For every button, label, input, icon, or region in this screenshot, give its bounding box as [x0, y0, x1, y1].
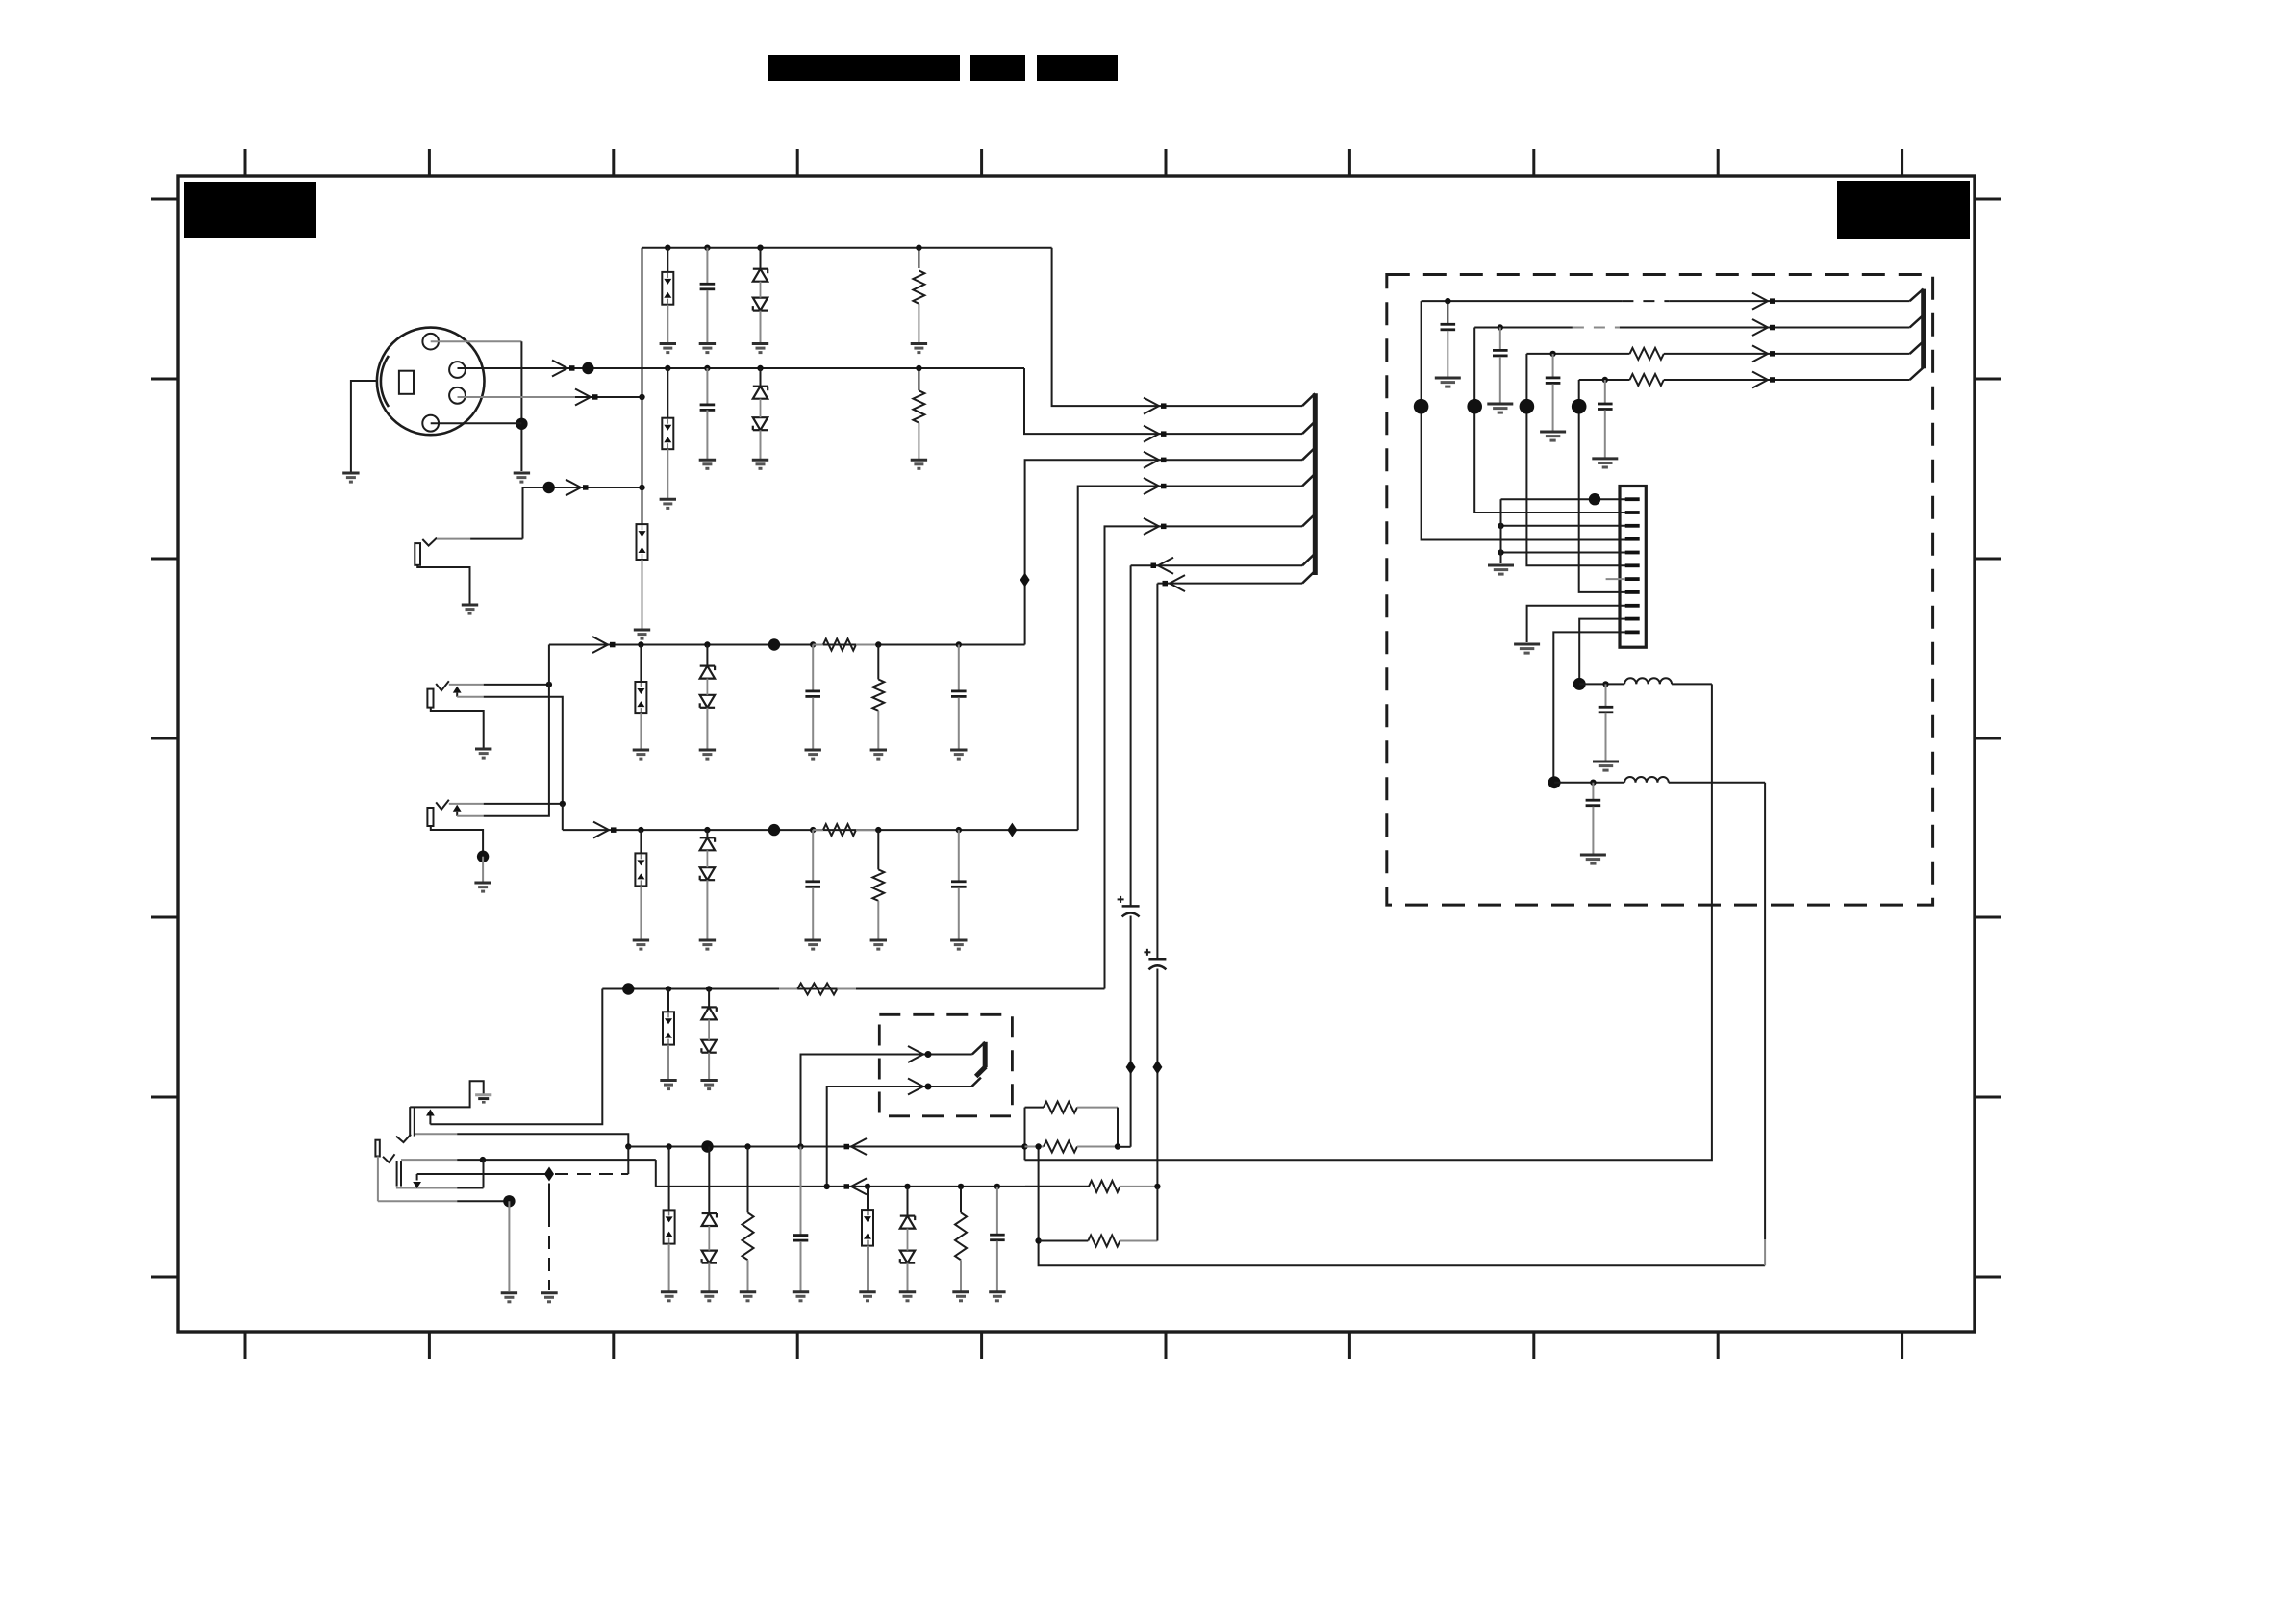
wire MIC2 rail to header line2 — [1024, 368, 1302, 434]
wire — [482, 857, 484, 882]
wire — [708, 1263, 710, 1291]
wire — [1447, 301, 1448, 324]
resistor R9 — [955, 1212, 967, 1260]
junction dot — [706, 986, 712, 991]
arrow rail A — [592, 637, 616, 653]
junction dot — [704, 641, 710, 647]
junction dot — [1590, 780, 1596, 786]
wire — [642, 560, 643, 629]
capacitor C1 — [700, 284, 716, 289]
wire J4 tip — [449, 803, 563, 805]
junction dot rail2 start — [625, 1143, 631, 1149]
ground R9 — [952, 1292, 969, 1301]
redacted corner box top-right — [1837, 181, 1970, 239]
ground D2 — [752, 460, 768, 468]
bottom rail 3 wire — [656, 1186, 1089, 1187]
jack connector J2 tip contact — [415, 538, 522, 565]
arrow header line1 — [1144, 398, 1167, 414]
dashed segment line2 — [1573, 327, 1620, 329]
ground C14 — [1540, 432, 1566, 440]
jack connector J3 body — [427, 681, 448, 707]
transient suppressor Z4 — [635, 682, 646, 713]
wire XLR pin4 — [431, 422, 522, 424]
junction node dot — [701, 1140, 713, 1152]
resistor R2 — [913, 390, 924, 422]
junction dot — [757, 245, 763, 251]
wire — [667, 989, 669, 1012]
wire — [706, 368, 708, 405]
junction dot R12 left — [1035, 1237, 1041, 1243]
redacted title bar 1 — [768, 55, 960, 81]
wire — [1604, 380, 1606, 404]
wire header line6 jog — [1118, 1146, 1131, 1148]
arrow header line2 — [1144, 426, 1167, 442]
wire header line3 — [1025, 460, 1302, 644]
ground D4 — [699, 940, 716, 949]
wire — [668, 1147, 670, 1211]
wire — [708, 1053, 710, 1080]
capacitor C6 — [951, 882, 967, 887]
wire — [706, 290, 708, 342]
resistor R14 — [1630, 348, 1664, 360]
capacitor C14 — [1546, 378, 1561, 384]
wire line1 to pin4 — [1422, 301, 1625, 539]
wire headphone return lower — [1039, 783, 1766, 1266]
junction dot — [638, 641, 643, 647]
junction dot — [1498, 324, 1503, 330]
wire — [918, 423, 919, 459]
wire CN1 pin7 stub — [1606, 578, 1625, 580]
resistor R6 — [872, 869, 884, 901]
junction dot — [666, 1143, 671, 1149]
wire XLR pin1 down — [431, 341, 522, 471]
ground C12 — [1435, 378, 1461, 387]
rail B wire — [563, 829, 1078, 831]
ground D1 — [752, 344, 768, 353]
capacitor C5 — [805, 882, 820, 887]
wire J2 tip up to node — [523, 487, 642, 539]
bus entry module line1 — [1910, 289, 1924, 302]
transient suppressor Z1 — [662, 272, 673, 305]
wire — [667, 449, 668, 498]
ground J6 ring — [501, 1293, 517, 1302]
polarized capacitor C10 — [1118, 896, 1140, 917]
junction dot — [744, 1143, 750, 1149]
jack connector J4 body — [427, 800, 448, 826]
wire J2 sleeve — [417, 565, 469, 604]
bus entry line7 — [1302, 571, 1315, 584]
wire — [960, 1260, 962, 1290]
wire — [1554, 782, 1624, 784]
ground C5 — [805, 940, 821, 949]
wire — [706, 880, 708, 939]
capacitor C4 — [951, 691, 967, 697]
bus entry module line3 — [1910, 341, 1924, 354]
jack J4 switch arrow — [453, 805, 462, 816]
transient suppressor Z6 — [663, 1012, 674, 1044]
ground C4 — [950, 750, 967, 759]
wire — [1499, 328, 1501, 351]
diode pair D3 — [700, 666, 715, 708]
junction dot — [810, 641, 816, 647]
wire line7 down to R12 — [1156, 1187, 1158, 1241]
series resistor R5 — [813, 824, 878, 836]
ground C17 — [1580, 855, 1606, 863]
dashed module box — [1387, 275, 1933, 906]
jack J5 switch arrow — [426, 1110, 435, 1125]
arrow option line2 — [908, 1079, 932, 1095]
ground CN1 pins — [1488, 565, 1514, 574]
wire — [958, 645, 960, 691]
wire line4 to pin8 — [1579, 380, 1625, 592]
resistor R4 — [872, 680, 884, 711]
wire module line3 — [1526, 353, 1909, 355]
wire — [706, 410, 708, 459]
arrow module line1 — [1752, 293, 1775, 310]
wire CN1 pin3 — [1501, 525, 1626, 527]
wire — [1552, 384, 1554, 431]
redacted title bar 2 — [970, 55, 1025, 81]
wire — [747, 1147, 749, 1213]
ground C13 — [1487, 404, 1513, 412]
ground D3 — [699, 750, 716, 759]
module header bus — [1921, 289, 1926, 369]
ground C6 — [950, 940, 967, 949]
capacitor C17 — [1586, 800, 1601, 806]
ground J4 sleeve — [474, 883, 491, 891]
junction dot — [916, 245, 921, 251]
ground Z8 — [859, 1292, 875, 1301]
junction node dot — [768, 638, 780, 650]
wire top rail 1 — [642, 247, 1052, 249]
junction dot — [797, 1143, 803, 1149]
wire — [667, 305, 668, 342]
wire — [958, 887, 960, 939]
wire — [1592, 783, 1594, 801]
junction dot J3 node — [546, 682, 552, 687]
wire — [877, 711, 879, 749]
capacitor C12 — [1441, 324, 1456, 330]
wire J6 switch contact — [413, 1174, 549, 1188]
bus entry line4 — [1302, 474, 1315, 487]
wire CN1 pin9 — [1527, 606, 1625, 642]
junction dot — [875, 827, 881, 833]
diamond junction line7 — [1152, 1060, 1162, 1074]
junction J6 ring node — [503, 1195, 515, 1207]
junction dot J6 tip — [480, 1157, 486, 1162]
resistor R1 — [913, 270, 924, 303]
junction dot — [810, 827, 816, 833]
transient suppressor Z5 — [635, 853, 646, 886]
diode pair D5 — [701, 1007, 716, 1052]
ground Z5 — [633, 940, 649, 949]
resistor R13 — [1025, 1181, 1157, 1192]
wire — [640, 645, 642, 683]
capacitor C2 — [700, 405, 716, 411]
wire — [706, 645, 708, 666]
wire J6 tip corner to rail3 — [655, 1160, 657, 1187]
junction dot — [916, 365, 921, 371]
junction dot — [638, 827, 643, 833]
junction dot — [704, 365, 710, 371]
wire header line6 — [1131, 564, 1302, 566]
capacitor C16 — [1599, 707, 1614, 712]
wire CN1 pin5 — [1501, 552, 1626, 554]
wire — [877, 901, 879, 939]
wire rail2 stub down — [627, 1147, 629, 1175]
wire module line1 — [1422, 300, 1910, 302]
ground Z7 — [661, 1292, 677, 1301]
wire CN1 pin1 — [1501, 498, 1626, 500]
wire CN1 pin11 — [1553, 632, 1625, 782]
ground Z4 — [633, 750, 649, 759]
ground J6 switch — [541, 1293, 557, 1302]
junction node dot — [1467, 399, 1482, 414]
junction dot pin5 — [1498, 549, 1503, 555]
wire — [706, 708, 708, 749]
junction dot — [956, 827, 962, 833]
junction dot — [958, 1184, 964, 1189]
ground R8 — [740, 1292, 756, 1301]
wire option line1 — [801, 1055, 972, 1147]
wire J4 node down to rail B — [562, 804, 564, 830]
ground D5 — [700, 1081, 717, 1089]
bottom rail 2 wire — [628, 1146, 1024, 1148]
capacitor C8 — [990, 1235, 1005, 1240]
wire — [867, 1246, 869, 1291]
arrow on pin3 wire — [575, 389, 598, 406]
wire — [747, 1260, 749, 1290]
wire J6 ring lead — [378, 1157, 510, 1202]
junction J4 sleeve node — [477, 851, 489, 862]
bus entry line2 — [1302, 421, 1315, 434]
wire — [812, 887, 814, 939]
wire R10/R11 right link — [1117, 1108, 1119, 1147]
wire — [760, 248, 762, 269]
ground Z6 — [660, 1081, 676, 1089]
bottom border tick marks — [245, 1332, 1902, 1359]
ground Z1 — [660, 344, 676, 353]
junction dot — [1445, 298, 1450, 304]
wire line3 to pin6 — [1526, 354, 1625, 565]
wire diamond down — [548, 1184, 550, 1214]
diode pair D7 — [900, 1216, 915, 1263]
bus entry option line1 — [972, 1042, 985, 1055]
junction dot — [956, 641, 962, 647]
transient suppressor Z8 — [862, 1210, 873, 1246]
junction XLR pin1/pin4 node — [516, 418, 527, 430]
junction node L2 — [1548, 776, 1561, 788]
wire header line7 — [1157, 583, 1302, 585]
dashed wire diamond to ground — [548, 1213, 550, 1290]
wire — [960, 1187, 962, 1212]
wire header line7 vertical upper — [1156, 584, 1158, 960]
ground XLR shell — [342, 473, 359, 482]
polarized capacitor C11 — [1144, 949, 1166, 970]
wire headphone return upper — [1025, 684, 1712, 1160]
arrow header line6 — [1151, 558, 1174, 574]
bottom rail 1 wire — [602, 988, 1104, 990]
diamond junction rail B — [1007, 823, 1017, 837]
ground C15 — [1592, 459, 1618, 467]
header bus line — [1313, 393, 1318, 575]
wire — [706, 830, 708, 837]
arrow module line4 — [1752, 372, 1775, 388]
bus entry line1 — [1302, 393, 1315, 406]
wire — [667, 368, 668, 418]
wire line2 to pin2 — [1474, 328, 1625, 513]
wire — [640, 886, 642, 939]
arrow option line1 — [908, 1046, 932, 1062]
wire module line2 — [1474, 327, 1909, 329]
ground R2 — [911, 460, 927, 468]
wire J3 sleeve — [431, 708, 484, 748]
junction dot — [704, 245, 710, 251]
junction node dot — [1572, 399, 1587, 414]
wire J3 switch to J4 tip corner — [457, 697, 563, 804]
wire J5 chassis — [410, 1081, 484, 1107]
resistor R8 — [743, 1212, 754, 1260]
diode pair D4 — [700, 837, 715, 880]
dashed segment line1 — [1622, 300, 1669, 302]
wire — [800, 1147, 802, 1236]
wire — [918, 304, 919, 342]
jack connector J5 body — [396, 1107, 415, 1142]
ground D6 — [701, 1292, 718, 1301]
wire header line4 — [1078, 487, 1302, 831]
junction dot — [1035, 1143, 1041, 1149]
wire — [996, 1241, 998, 1291]
junction dot J4 tip node — [560, 801, 566, 807]
wire — [996, 1187, 998, 1235]
ground C1 — [699, 344, 716, 353]
wire vertical input rail — [642, 248, 643, 524]
junction dot — [875, 641, 881, 647]
junction dot — [666, 986, 671, 991]
resistor R11 on rail2 — [1025, 1141, 1119, 1153]
wire — [760, 311, 762, 342]
bus entry line6 — [1302, 554, 1315, 566]
wire — [1605, 684, 1607, 707]
wire — [667, 248, 668, 272]
junction node dot — [1414, 399, 1429, 414]
wire R10/R11 left link — [1024, 1108, 1026, 1161]
wire — [918, 368, 919, 390]
junction dot — [904, 1184, 910, 1189]
ground C8 — [989, 1292, 1005, 1301]
junction node dot — [622, 983, 634, 994]
wire — [812, 697, 814, 749]
wire — [877, 645, 879, 680]
wire header line6 vertical lower — [1130, 916, 1132, 1147]
ground C2 — [699, 460, 716, 468]
wire — [907, 1187, 909, 1216]
arrow header line4 — [1144, 478, 1167, 494]
wire — [812, 830, 814, 882]
ground J2 sleeve — [462, 605, 478, 613]
wire J3 node up to rail A — [548, 645, 550, 685]
wire — [640, 830, 642, 853]
wire header line7 vertical lower — [1156, 969, 1158, 1187]
wire top rail1 to header line1 — [1052, 248, 1302, 406]
wire — [708, 1147, 710, 1214]
arrow on J2 wire — [566, 480, 589, 496]
wire J3 tip — [449, 684, 549, 686]
capacitor C7 — [793, 1236, 809, 1241]
junction dot MIC2 — [582, 362, 593, 374]
ground Z3 — [634, 630, 650, 638]
series resistor R7 — [779, 984, 856, 995]
bus entry line5 — [1302, 514, 1315, 527]
wire — [918, 248, 919, 268]
wire J6 sleeve up to tip node — [483, 1160, 485, 1187]
series resistor R3 — [813, 639, 878, 651]
wire XLR pin2 to rail MIC2 / node A — [458, 367, 1025, 369]
bus entry module line2 — [1910, 315, 1924, 328]
junction pin3/vertical — [639, 394, 644, 400]
ground C7 — [793, 1292, 809, 1301]
wire — [907, 1263, 909, 1291]
jack connector J6 body — [375, 1140, 401, 1187]
wire — [1605, 713, 1607, 761]
wire L2 out — [1669, 782, 1765, 784]
ground Z2 — [660, 499, 676, 508]
wire — [668, 1244, 670, 1291]
wire — [640, 713, 642, 749]
ground R1 — [911, 344, 927, 353]
wire — [1604, 411, 1606, 458]
diamond junction J6 switch — [544, 1167, 554, 1182]
wire module line4 — [1579, 379, 1910, 381]
inductor L1 — [1624, 678, 1672, 684]
resistor R10 — [1025, 1102, 1119, 1113]
arrow bottom rail 2 — [844, 1138, 868, 1155]
wire XLR pin3 to rail node — [458, 396, 642, 398]
arrow header line5 — [1144, 518, 1167, 535]
junction dot pin3 — [1498, 523, 1503, 529]
transient suppressor Z7 — [664, 1210, 675, 1243]
junction node pin1 — [1589, 493, 1600, 505]
dashed wire diamond to rail2 — [555, 1173, 628, 1175]
junction dot — [1549, 351, 1555, 357]
wire header line5 — [1105, 526, 1303, 988]
junction dot — [665, 365, 670, 371]
wire J6 sleeve — [396, 1187, 484, 1189]
bus entry module line4 — [1910, 367, 1924, 380]
junction dot — [665, 245, 670, 251]
wire CN1 ground stack — [1500, 499, 1502, 563]
wire J4 sleeve — [431, 826, 483, 857]
right border tick marks — [1975, 199, 2001, 1277]
sheet frame border — [178, 176, 1975, 1332]
wire — [877, 830, 879, 869]
junction dot — [1602, 681, 1608, 687]
ground R4 — [870, 750, 887, 759]
junction J2 wire/vertical — [639, 485, 644, 490]
ground C16 — [1593, 762, 1619, 770]
capacitor C15 — [1598, 404, 1613, 410]
arrow header line7 — [1163, 575, 1186, 591]
capacitor C13 — [1493, 350, 1508, 356]
junction node dot — [1520, 399, 1535, 414]
wire — [867, 1187, 869, 1210]
junction dot — [706, 1143, 712, 1149]
wire — [800, 1241, 802, 1291]
wire J4 switch to J3 node — [457, 685, 549, 816]
junction dot R13 right — [1154, 1184, 1160, 1189]
arrow rail B — [593, 822, 617, 838]
junction dot — [1115, 1143, 1120, 1149]
